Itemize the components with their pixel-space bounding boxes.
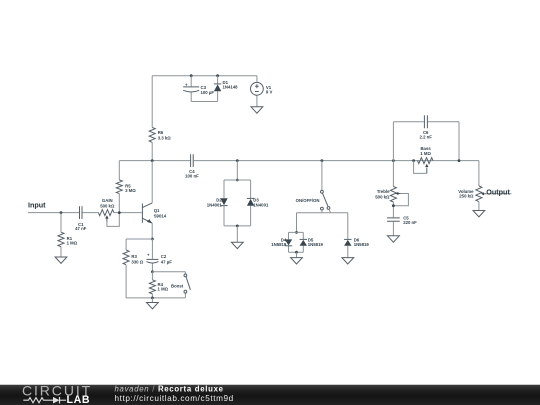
switch Boost [171, 272, 190, 298]
svg-text:C2: C2 [161, 254, 167, 259]
svg-text:1 MΩ: 1 MΩ [158, 286, 169, 291]
node rail at clip switch [321, 159, 324, 162]
wire clip selector [297, 209, 348, 239]
resistor R3 330 [123, 239, 144, 298]
svg-text:havaden / Recorta deluxe: havaden / Recorta deluxe [115, 385, 224, 394]
ground below V1 [251, 107, 263, 113]
resistor R6 3.3k [149, 76, 171, 161]
svg-text:47 µF: 47 µF [161, 260, 172, 265]
node C2/R4 junction [151, 270, 154, 273]
wire output [486, 193, 511, 195]
node rail at C6 right [458, 159, 461, 162]
node D4/D5 box bottom [295, 251, 298, 254]
diode D1 1N4148 [214, 76, 238, 102]
ground below C5 [388, 236, 400, 242]
svg-text:220 nF: 220 nF [403, 220, 417, 225]
svg-text:500 kΩ: 500 kΩ [375, 195, 390, 200]
resistor R5 3M [116, 161, 136, 213]
footer bar [0, 382, 540, 405]
node rail at R6/collector [151, 159, 154, 162]
svg-text:1N4148: 1N4148 [223, 85, 239, 90]
capacitor C5 220nF [387, 216, 417, 236]
capacitor C4 100nF [185, 154, 199, 178]
node D2/D3 box top [236, 179, 239, 182]
svg-text:1 MΩ: 1 MΩ [420, 151, 431, 156]
svg-text:R3: R3 [131, 254, 137, 259]
svg-text:330 Ω: 330 Ω [131, 260, 143, 265]
wire collector lead [151, 161, 153, 203]
wire D4/D5 box [289, 232, 304, 252]
switch ON/OFF/ON [296, 161, 330, 210]
svg-text:Treble: Treble [377, 189, 390, 194]
wire input line [28, 212, 142, 214]
resistor R1 1M [58, 213, 78, 257]
diode D5 1N5819 [300, 238, 324, 248]
svg-text:250 kΩ: 250 kΩ [459, 194, 474, 199]
capacitor C1 47nF [75, 206, 87, 231]
ground below D2/D3 [236, 226, 238, 242]
capacitor C2 47uF [146, 239, 172, 272]
wire C3/D1 bottom link [191, 101, 217, 103]
svg-text:47 nF: 47 nF [75, 226, 87, 231]
svg-text:R6: R6 [158, 130, 164, 135]
node rail at treble/C6 [392, 159, 395, 162]
resistor R4 1M [149, 272, 168, 298]
svg-text:Output: Output [486, 187, 510, 196]
svg-text:Boost: Boost [171, 284, 184, 289]
potentiometer Treble 500k [375, 161, 408, 218]
svg-text:Input: Input [28, 201, 46, 210]
svg-text:ON/OFF/ON: ON/OFF/ON [296, 198, 320, 203]
voltage source V1 9V [251, 76, 273, 107]
potentiometer GAIN 500k [98, 198, 119, 226]
svg-text:1N5819: 1N5819 [354, 242, 370, 247]
svg-text:500 kΩ: 500 kΩ [100, 204, 115, 209]
wire rail to D2/D3 box [236, 161, 238, 180]
node top rail at C3 [190, 74, 193, 77]
ground below volume [473, 211, 485, 217]
diode D2 1N4001 [207, 197, 228, 207]
svg-text:100 nF: 100 nF [185, 173, 199, 178]
wire rail corner to volume [478, 161, 480, 186]
wire main rail [119, 160, 479, 162]
transistor Q1 S9014 [142, 203, 166, 224]
svg-text:100 µF: 100 µF [201, 90, 215, 95]
potentiometer Bass 1M [414, 146, 433, 174]
svg-text:LAB: LAB [67, 394, 91, 405]
potentiometer Volume 250k [458, 186, 486, 211]
wire top supply rail [152, 75, 257, 77]
svg-text:2.2 nF: 2.2 nF [419, 135, 432, 140]
node treble bottom [392, 204, 395, 207]
wire emitter network bottom rail [126, 297, 185, 299]
svg-text:1N5819: 1N5819 [308, 242, 324, 247]
svg-text:http://circuitlab.com/c5ttm9d: http://circuitlab.com/c5ttm9d [115, 394, 234, 403]
svg-text:S9014: S9014 [154, 213, 167, 218]
svg-text:GAIN: GAIN [102, 198, 113, 203]
node top rail at D1 [216, 74, 219, 77]
svg-text:9 V: 9 V [266, 90, 273, 95]
wire emitter lead [151, 223, 153, 239]
diode D4 1N5819 [271, 238, 292, 248]
ground below D6 [347, 246, 349, 258]
ground below D4/D5 [296, 252, 298, 257]
svg-text:3 MΩ: 3 MΩ [125, 188, 136, 193]
node D4/D5 box top [295, 231, 298, 234]
svg-text:1 MΩ: 1 MΩ [67, 240, 78, 245]
node rail at bass box [412, 159, 415, 162]
node D2/D3 box bottom [236, 225, 239, 228]
svg-text:1N4001: 1N4001 [207, 203, 223, 208]
svg-text:1N5819: 1N5819 [271, 242, 287, 247]
node input at R1 [60, 211, 63, 214]
svg-text:3.3 kΩ: 3.3 kΩ [158, 135, 172, 140]
capacitor C3 100uF [183, 76, 214, 102]
node emitter [151, 238, 154, 241]
CircuitLab logo resistor-diode symbol [23, 398, 48, 403]
svg-text:Q1: Q1 [154, 208, 160, 213]
diode D6 1N5819 [344, 238, 369, 248]
node base junction [118, 211, 121, 214]
ground emitter network [151, 298, 153, 303]
ground below R1 [55, 257, 67, 263]
capacitor C6 2.2nF [393, 115, 459, 160]
diode D3 1N4001 [247, 197, 269, 207]
svg-text:1N4001: 1N4001 [253, 203, 269, 208]
node bottom rail [151, 297, 154, 300]
node rail at D2/D3 [236, 159, 239, 162]
wire emitter to R3 [126, 238, 152, 240]
wire to boost switch [152, 271, 185, 273]
wire D2/D3 box [224, 180, 251, 226]
